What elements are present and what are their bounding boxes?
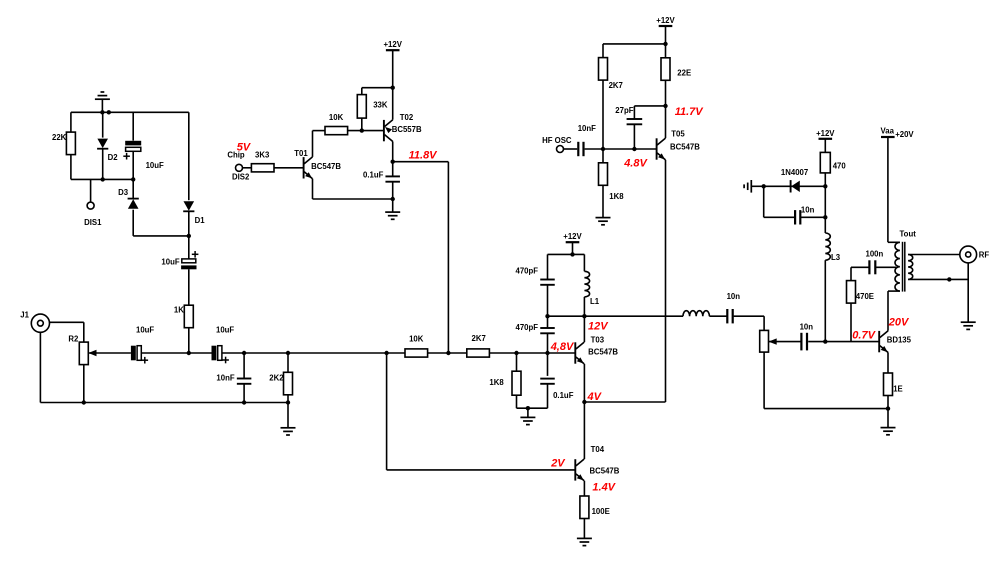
svg-text:2V: 2V [550,458,566,470]
svg-text:1K8: 1K8 [609,192,624,201]
svg-text:0.1uF: 0.1uF [363,171,384,180]
svg-text:BC557B: BC557B [392,125,422,134]
svg-text:D2: D2 [108,153,119,162]
svg-text:100n: 100n [866,249,884,258]
svg-text:2K7: 2K7 [472,334,486,343]
svg-text:J1: J1 [20,311,29,320]
svg-text:T03: T03 [591,336,605,345]
svg-text:L3: L3 [831,253,841,262]
svg-text:10nF: 10nF [578,124,596,133]
svg-text:10uF: 10uF [216,326,234,335]
svg-text:Vaa: Vaa [881,127,895,136]
svg-text:2K2: 2K2 [269,374,284,383]
svg-text:1K8: 1K8 [489,378,504,387]
svg-text:10uF: 10uF [161,257,179,266]
svg-text:0.1uF: 0.1uF [553,391,574,400]
svg-text:R2: R2 [68,335,79,344]
svg-text:11.7V: 11.7V [675,106,705,118]
svg-text:22K: 22K [52,133,67,142]
svg-text:100E: 100E [592,507,610,516]
svg-text:470pF: 470pF [516,323,539,332]
svg-text:BC547B: BC547B [588,348,618,357]
svg-text:DIS2: DIS2 [232,173,250,182]
svg-text:DIS1: DIS1 [84,218,102,227]
svg-text:22E: 22E [677,69,691,78]
svg-text:11.8V: 11.8V [409,150,439,162]
svg-text:T02: T02 [400,113,414,122]
svg-text:4,8V: 4,8V [550,341,575,353]
svg-text:T04: T04 [591,445,605,454]
svg-text:BC547B: BC547B [670,142,700,151]
svg-text:10uF: 10uF [136,326,154,335]
svg-text:10n: 10n [801,206,815,215]
svg-text:D3: D3 [118,188,129,197]
svg-text:1N4007: 1N4007 [781,168,808,177]
svg-text:2K7: 2K7 [609,81,623,90]
svg-text:470: 470 [833,161,847,170]
svg-text:470E: 470E [856,292,874,301]
svg-text:Chip: Chip [227,150,245,159]
svg-text:10uF: 10uF [146,161,164,170]
svg-text:10K: 10K [409,335,424,344]
svg-text:L1: L1 [590,297,600,306]
svg-text:10K: 10K [329,113,344,122]
svg-text:1K: 1K [174,306,184,315]
svg-text:1E: 1E [893,385,903,394]
svg-text:HF OSC: HF OSC [542,136,572,145]
svg-text:4V: 4V [587,391,603,403]
svg-text:+12V: +12V [383,40,402,49]
svg-text:BC547B: BC547B [311,162,341,171]
svg-text:Tout: Tout [900,230,917,239]
svg-text:10n: 10n [800,323,814,332]
svg-text:D1: D1 [195,216,206,225]
svg-text:3K3: 3K3 [255,151,270,160]
svg-text:470pF: 470pF [516,267,539,276]
svg-text:10nF: 10nF [216,374,234,383]
svg-text:+12V: +12V [816,129,835,138]
svg-text:BC547B: BC547B [590,466,620,475]
svg-text:20V: 20V [888,317,910,329]
svg-text:0.7V: 0.7V [852,329,876,341]
svg-text:12V: 12V [588,321,609,333]
svg-text:+12V: +12V [656,16,675,25]
svg-text:1.4V: 1.4V [592,482,616,494]
svg-text:+20V: +20V [895,130,914,139]
svg-text:33K: 33K [373,100,388,109]
svg-text:T01: T01 [294,149,308,158]
svg-text:RF: RF [979,251,990,260]
svg-text:27pF: 27pF [615,106,633,115]
svg-text:T05: T05 [671,129,685,138]
svg-text:+12V: +12V [563,232,582,241]
svg-text:10n: 10n [727,292,741,301]
svg-text:4.8V: 4.8V [623,157,648,169]
svg-text:BD135: BD135 [887,336,912,345]
